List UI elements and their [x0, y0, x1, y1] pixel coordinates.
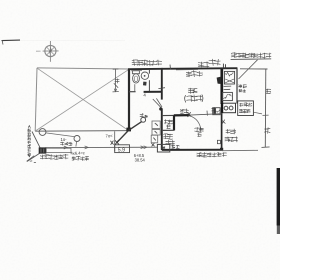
- closet walls: [162, 115, 175, 130]
- svg-text:1o-: 1o-: [61, 137, 68, 142]
- shutter text row: [40, 154, 68, 160]
- title underline: [231, 58, 272, 61]
- house bottom wall: [162, 150, 258, 151]
- kitchen right wall: [236, 68, 238, 103]
- dim chars: [266, 89, 271, 94]
- door swing at left wall: [153, 98, 163, 110]
- (2.5 shitsu): [185, 95, 203, 103]
- carport diagonal 2: [36, 69, 130, 131]
- X mark on wall: [187, 112, 191, 117]
- door blob left of kitchen wall: [217, 77, 221, 84]
- stove box: [222, 103, 236, 113]
- dark bar right edge: [277, 168, 280, 234]
- notes along lower wall: [226, 129, 236, 135]
- bathroom bottom wall: [129, 91, 162, 93]
- text above kitchen: [209, 59, 221, 66]
- note right of kitchen: [239, 84, 247, 88]
- X mark 2: [110, 141, 113, 145]
- kitchen left wall thick: [220, 69, 223, 104]
- small cross mark: [222, 120, 226, 124]
- small dashes: [30, 161, 36, 163]
- diagonal to circle: [129, 122, 142, 131]
- small square mark: [217, 140, 220, 143]
- carport diagonal 1: [37, 68, 128, 130]
- small scribble: [115, 79, 120, 84]
- porch box: [157, 144, 169, 152]
- fold line top-left: [2, 40, 126, 45]
- 6 jou: [188, 88, 197, 94]
- shutter dark box: [39, 148, 71, 154]
- wash basin: [141, 72, 148, 79]
- svg-text:38.54: 38.54: [135, 158, 146, 163]
- bathroom label: [132, 60, 162, 67]
- connecting line: [46, 133, 74, 137]
- circle 2: [74, 136, 80, 147]
- svg-text:4x6.4=c: 4x6.4=c: [70, 150, 85, 156]
- vertical dimension line: [113, 69, 119, 92]
- room size note: [186, 70, 203, 77]
- door arc: [190, 116, 201, 130]
- x mark left of porch: [151, 143, 154, 146]
- svg-text:7o<: 7o<: [105, 133, 113, 139]
- lower right wall: [220, 113, 223, 151]
- boxed label: [238, 101, 262, 116]
- arrow line: [46, 146, 158, 149]
- house left wall: [126, 69, 131, 132]
- kitchen lower box: [222, 92, 232, 100]
- closet label: [164, 119, 173, 124]
- right dimension line: [240, 69, 270, 148]
- toilet: [132, 71, 139, 83]
- door label scribble: [194, 127, 203, 132]
- svg-text:5.9: 5.9: [118, 147, 125, 153]
- carport rectangle: [35, 68, 129, 131]
- G scribble: [140, 113, 144, 117]
- bathroom top wall: [128, 69, 163, 71]
- kitchen counter dashes: [224, 86, 232, 90]
- diagonal to X mark: [117, 131, 128, 143]
- vertical tick line: [114, 131, 116, 151]
- entry step boxes: [151, 121, 160, 143]
- bottom note row: [197, 152, 227, 158]
- title leader line: [239, 60, 258, 79]
- lower closet label: [163, 134, 173, 140]
- room left wall: [158, 88, 165, 150]
- X mark: [115, 140, 119, 145]
- box 5.9: [115, 145, 130, 154]
- inner wall horizontal: [162, 111, 222, 116]
- title text top right: [231, 52, 271, 58]
- diagonal leaders bottom-left: [27, 132, 40, 162]
- marks left of stove: [211, 107, 216, 112]
- circle on corner: [39, 129, 46, 136]
- vertical kanji column: [28, 126, 31, 157]
- small circle marker: [141, 117, 146, 122]
- bathroom right wall: [161, 69, 163, 100]
- dark fixture blob: [143, 82, 147, 86]
- kitchen vent dashes: [223, 64, 225, 69]
- sink unit box: [213, 108, 220, 115]
- marks above inner wall: [180, 109, 189, 114]
- kitchen sink unit: [224, 71, 234, 84]
- house top wall: [161, 65, 237, 70]
- bathroom partition: [135, 69, 150, 91]
- compass rose: [36, 41, 59, 62]
